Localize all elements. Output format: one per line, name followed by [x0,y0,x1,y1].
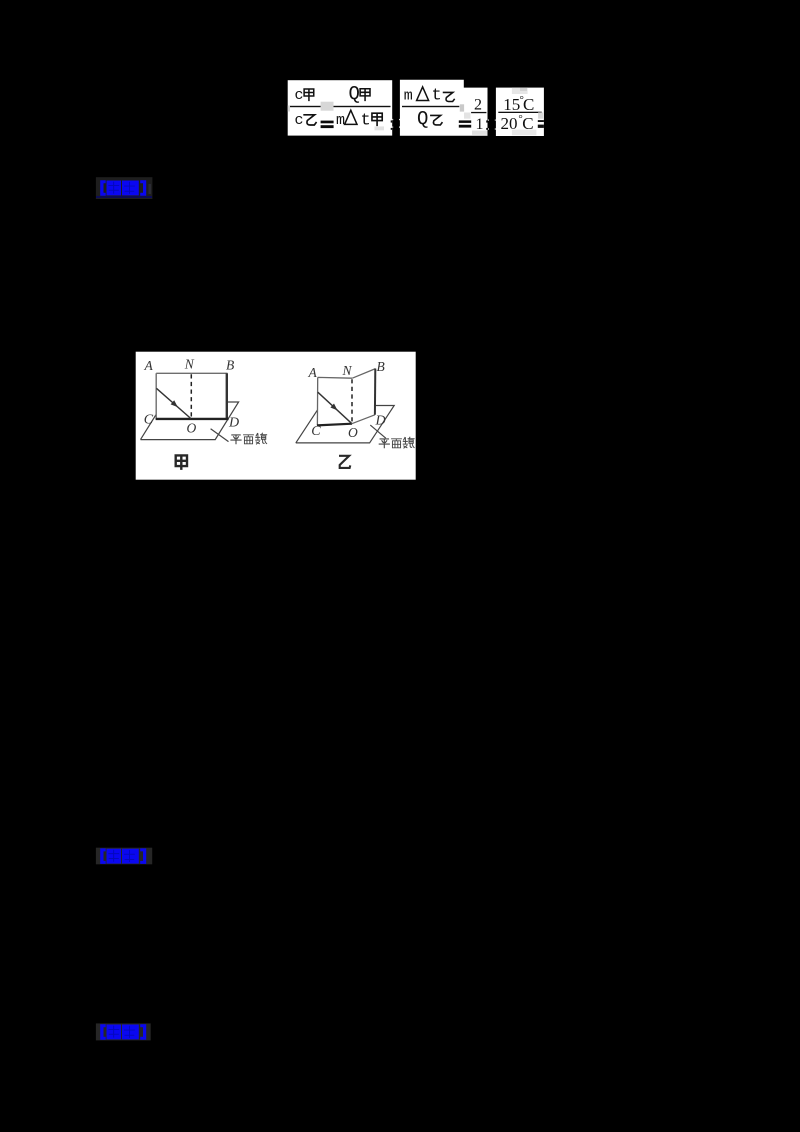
svg-text:C: C [523,95,534,114]
svg-text:1: 1 [476,116,484,133]
incident ray with arrowhead (jia) [156,388,190,418]
svg-text:B: B [226,358,234,373]
formula image 1 white background [288,80,393,135]
dark blue underline [96,196,152,197]
svg-text:O: O [348,425,358,440]
svg-text:D: D [375,414,386,429]
blue bracketed label text 1 [100,180,146,196]
clipped equals marks at right edge [486,120,487,122]
equals nubs between box2 and box3 [488,120,496,130]
pointer line to label (yi) [370,425,386,438]
equals nubs between box1 and box2 [392,119,400,128]
svg-text:t: t [361,111,371,130]
svg-text:15: 15 [503,95,520,114]
fraction bar [290,106,391,107]
subscript yi of c [304,115,316,125]
caption yi [339,456,350,468]
scan artifact grey patch on bar [321,102,334,111]
svg-text:c: c [295,87,304,104]
svg-text:Q: Q [349,83,360,105]
svg-text:Q: Q [417,108,428,130]
svg-text:m: m [336,112,345,129]
svg-text:A: A [308,365,318,380]
svg-text:2: 2 [474,96,482,113]
subscript jia of c [304,89,314,100]
svg-text:O: O [187,420,197,435]
equals sign at edge [538,120,544,122]
grey artifact right [538,112,543,118]
pointer line to label (jia) [211,429,229,442]
blue bracketed label text 3 [100,1024,146,1040]
svg-text:c: c [295,112,304,129]
caption jia [176,455,187,468]
svg-text:C: C [144,413,154,428]
bold equals sign [459,120,471,123]
ratio fraction bar [471,112,486,113]
blue bracketed label text 2 [100,848,146,864]
normal dashed line N-O (jia) [190,374,192,418]
figure image white background [136,352,416,480]
fraction bar [498,112,542,113]
svg-text:t: t [432,87,442,106]
text ping-mian-jing (jia) [231,435,241,444]
grey scan artifacts top [512,88,528,94]
delta triangle [417,87,429,101]
incident ray with arrowhead (yi) [318,392,352,423]
bold equals sign [321,121,334,124]
subscript jia of t [372,113,382,125]
formula image 2 white background (stepped) [400,80,488,136]
grey artifact bottom [512,130,537,136]
fraction bar [402,106,459,107]
svg-text:N: N [184,357,195,372]
subscript yi of Q [431,115,442,124]
formula box 1: c甲/c乙 = Q甲/(mΔt甲) [288,80,393,135]
formula image 3 white background [496,88,544,136]
svg-text:N: N [342,363,353,378]
subscript jia of Q [360,89,370,101]
normal dashed line N-O (yi) [351,379,353,423]
delta triangle [345,110,357,124]
dark highlight strip behind label 3 [96,1023,151,1040]
paper rectangle ABDC (jia) [156,373,227,419]
mirror plane parallelogram (yi) [296,406,394,443]
svg-text:m: m [404,88,413,105]
mirror plane parallelogram (jia) [141,402,239,440]
grey artifacts on box edges [288,106,290,112]
grey scan artifacts [460,104,464,111]
folded paper left half ANOC (yi) [317,377,352,425]
folded paper right half NBDO (yi) [352,369,376,424]
svg-text:A: A [144,358,154,373]
svg-text:D: D [228,415,239,430]
dark highlight strip behind label 2 [96,848,152,865]
formula box 3: 15°C / 20°C = [496,88,544,136]
faint colon remnant [149,184,152,194]
dark highlight strip behind label 1 [96,177,152,199]
svg-text:B: B [377,359,385,374]
text ping-mian-jing (yi) [379,439,389,448]
subscript yi of t [444,92,455,101]
clipped equals marks at right edge [391,120,393,122]
formula box 2: (mΔt乙)/Q乙 = 2/1 [400,80,488,136]
svg-text:C: C [311,424,321,439]
